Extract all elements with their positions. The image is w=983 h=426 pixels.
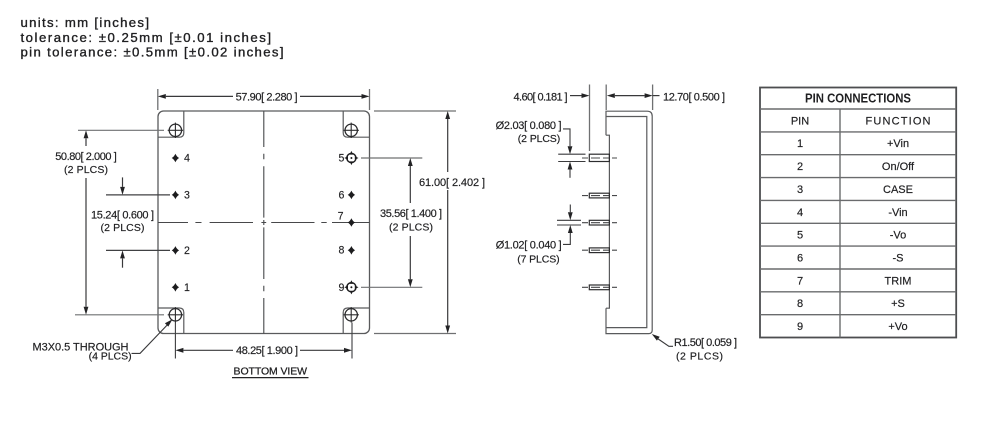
svg-text:4: 4 (797, 207, 803, 219)
notch bottom-left (159, 308, 184, 333)
mounting hole bottom-left (168, 307, 183, 322)
svg-text:TRIM: TRIM (885, 275, 912, 287)
pin 6 diamond (348, 191, 355, 200)
pin 3 diamond (172, 191, 179, 200)
svg-text:Ø2.03[ 0.080 ]: Ø2.03[ 0.080 ] (496, 120, 562, 132)
O1.02 ext lines (557, 219, 581, 221)
svg-text:+Vo: +Vo (888, 321, 907, 333)
svg-text:3: 3 (184, 190, 190, 202)
svg-text:1: 1 (797, 138, 803, 150)
pin 4 diamond (172, 154, 179, 163)
pin 8 diamond (348, 246, 355, 255)
svg-text:R1.50[ 0.059 ]: R1.50[ 0.059 ] (674, 337, 737, 349)
svg-text:+Vin: +Vin (887, 138, 909, 150)
svg-text:61.00[ 2.402 ]: 61.00[ 2.402 ] (419, 177, 485, 189)
dim 15.24 arrows (122, 177, 124, 187)
svg-text:Ø1.02[ 0.040 ]: Ø1.02[ 0.040 ] (496, 240, 562, 252)
svg-text:FUNCTION: FUNCTION (866, 115, 931, 127)
svg-text:(7 PLCS): (7 PLCS) (517, 253, 559, 265)
mounting hole bottom-right (344, 307, 359, 322)
vertical centerline (263, 111, 265, 333)
svg-text:12.70[ 0.500 ]: 12.70[ 0.500 ] (663, 91, 725, 103)
svg-text:2: 2 (184, 245, 190, 257)
dim 35.56 line + arrows (409, 166, 411, 203)
pin 5 target (344, 151, 358, 165)
svg-text:(2 PLCS): (2 PLCS) (389, 221, 433, 233)
dim 12.70 (607, 93, 615, 98)
body outline (606, 111, 652, 333)
side pin E (589, 285, 609, 290)
svg-text:(4 PLCS): (4 PLCS) (89, 351, 132, 363)
svg-text:9: 9 (339, 282, 345, 294)
svg-text:(2 PLCS): (2 PLCS) (64, 164, 108, 176)
dim 48.25 line + arrows (183, 349, 233, 351)
dim 61.00 extension lines (374, 110, 456, 112)
O2.03 ext lines (558, 153, 585, 155)
notch top-left (159, 112, 184, 138)
pin 1 diamond (172, 283, 179, 292)
svg-text:+S: +S (891, 298, 905, 310)
svg-text:(2 PLCS): (2 PLCS) (676, 351, 723, 363)
side pin C (589, 220, 609, 225)
svg-text:1: 1 (184, 282, 190, 294)
svg-text:(2 PLCS): (2 PLCS) (101, 222, 145, 234)
horizontal centerline (158, 222, 369, 224)
svg-text:PIN CONNECTIONS: PIN CONNECTIONS (805, 91, 911, 106)
dim 48.25 extension lines (174, 323, 176, 359)
svg-text:3: 3 (797, 184, 803, 196)
module outline (158, 111, 370, 334)
dim 57.90 extension lines (157, 89, 159, 110)
dim 57.90 line + arrows (166, 95, 233, 97)
dim 4.60 ext lines (589, 85, 591, 152)
dim 35.56 extension lines (361, 157, 422, 159)
svg-text:9: 9 (797, 321, 803, 333)
mounting hole top-right (344, 123, 359, 138)
svg-text:tolerance: ±0.25mm [±0.01 inch: tolerance: ±0.25mm [±0.01 inches] (21, 30, 272, 45)
svg-text:8: 8 (339, 245, 345, 257)
notch bottom-right (343, 308, 369, 333)
svg-text:50.80[ 2.000 ]: 50.80[ 2.000 ] (55, 151, 117, 163)
svg-text:-S: -S (893, 253, 904, 265)
svg-text:On/Off: On/Off (882, 161, 915, 173)
pin 7 diamond (348, 218, 355, 227)
dim 61.00 line + arrows (447, 119, 449, 172)
svg-text:6: 6 (339, 189, 345, 201)
mounting hole top-left (168, 123, 183, 138)
M3X0.5 leader (132, 325, 168, 353)
svg-text:48.25[ 1.900 ]: 48.25[ 1.900 ] (236, 345, 298, 357)
dim 15.24 extension lines (106, 194, 170, 196)
side pin A (row 1) (589, 154, 609, 161)
svg-text:4.60[ 0.181 ]: 4.60[ 0.181 ] (514, 91, 568, 103)
svg-text:-Vin: -Vin (888, 207, 907, 219)
svg-text:(2 PLCS): (2 PLCS) (518, 133, 560, 145)
svg-text:5: 5 (339, 153, 345, 165)
dim 50.80 extension lines (78, 129, 164, 131)
svg-text:7: 7 (338, 211, 344, 223)
header note text (21, 15, 284, 59)
svg-text:7: 7 (797, 275, 803, 287)
svg-text:-Vo: -Vo (890, 230, 907, 242)
side pin B (589, 193, 609, 198)
dim R1.50 leader (652, 334, 660, 341)
svg-text:units: mm [inches]: units: mm [inches] (21, 15, 150, 30)
svg-text:CASE: CASE (883, 184, 913, 196)
svg-text:15.24[ 0.600 ]: 15.24[ 0.600 ] (91, 210, 154, 222)
svg-text:BOTTOM VIEW: BOTTOM VIEW (234, 365, 308, 377)
svg-text:8: 8 (797, 298, 803, 310)
svg-text:57.90[ 2.280 ]: 57.90[ 2.280 ] (236, 91, 298, 103)
svg-text:5: 5 (797, 230, 803, 242)
pin 2 diamond (172, 246, 179, 255)
svg-text:pin tolerance: ±0.5mm [±0.02 i: pin tolerance: ±0.5mm [±0.02 inches] (21, 44, 284, 59)
svg-text:PIN: PIN (791, 115, 809, 127)
side pin D (589, 248, 609, 253)
notch top-right (343, 112, 369, 138)
svg-text:6: 6 (797, 253, 803, 265)
svg-text:4: 4 (184, 153, 190, 165)
pin 9 target (344, 280, 358, 294)
dim 50.80 line + arrows (85, 138, 87, 146)
svg-text:2: 2 (797, 161, 803, 173)
svg-text:35.56[ 1.400 ]: 35.56[ 1.400 ] (380, 208, 442, 220)
